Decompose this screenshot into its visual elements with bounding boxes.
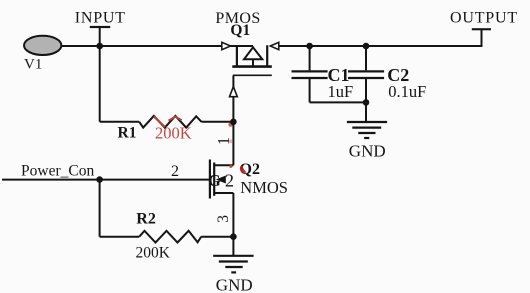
port INPUT [75, 9, 126, 47]
svg-text:Q1: Q1 [230, 22, 250, 39]
wire V1 to Q1 [61, 45, 222, 47]
svg-text:INPUT: INPUT [75, 9, 126, 26]
svg-text:GND: GND [216, 276, 253, 293]
resistor R1 [100, 116, 234, 141]
svg-text:2: 2 [225, 170, 234, 190]
ground GND (capacitors) [347, 102, 387, 160]
transistor Q1 (PMOS) [215, 10, 278, 76]
svg-text:200K: 200K [136, 245, 171, 262]
node Q2 source junction [230, 233, 237, 240]
resistor R2 [100, 211, 234, 243]
svg-text:V1: V1 [24, 56, 42, 72]
transistor Q2 (NMOS) [208, 160, 288, 199]
node input junction [96, 43, 103, 50]
svg-text:2: 2 [171, 163, 179, 180]
value 200K (red) of R1 [154, 117, 192, 143]
svg-text:R2: R2 [136, 211, 156, 228]
node C2 bottom junction [363, 99, 370, 106]
svg-text:0.1uF: 0.1uF [388, 82, 426, 101]
wire junction up to Q1 gate [232, 75, 234, 122]
svg-text:1: 1 [214, 137, 233, 145]
svg-text:GND: GND [349, 142, 386, 161]
capacitor C2 [348, 46, 426, 102]
wire C1 bottom to C2 bottom [310, 101, 366, 103]
wire input down to R1 [99, 46, 101, 122]
red artifact at Q2 drain [229, 165, 232, 168]
capacitor C1 [292, 46, 354, 102]
svg-text:OUTPUT: OUTPUT [450, 9, 518, 26]
svg-text:Power_Con: Power_Con [21, 162, 94, 179]
node Power_Con junction [96, 176, 103, 183]
svg-text:3: 3 [215, 215, 232, 223]
svg-text:200K: 200K [155, 124, 192, 143]
node R1/Q1-gate/Q2-drain junction [228, 122, 232, 126]
source V1 [24, 36, 61, 73]
ground GND (Q2 source) [213, 237, 253, 293]
wire Q2 drain up to junction [232, 122, 234, 165]
svg-text:G: G [208, 171, 221, 190]
wire junction down to R2 [99, 180, 101, 237]
node C1 top [306, 43, 313, 50]
svg-text:1uF: 1uF [328, 82, 354, 101]
pin 1 label [229, 140, 232, 143]
svg-text:NMOS: NMOS [240, 178, 288, 197]
wire Power_Con to Q2 gate [2, 179, 209, 181]
arrow up on gate wire [230, 87, 238, 97]
port OUTPUT [450, 9, 518, 47]
wire Q2 source down [232, 193, 234, 237]
wire Q1 drain to output [279, 45, 482, 47]
node C2 top [363, 43, 370, 50]
svg-text:R1: R1 [118, 124, 137, 141]
